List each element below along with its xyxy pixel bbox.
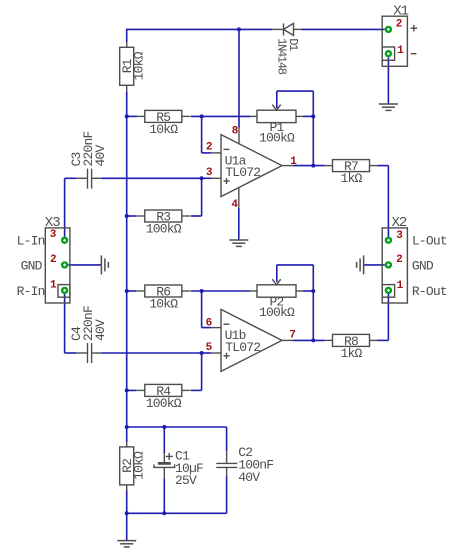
svg-text:40V: 40V xyxy=(93,319,108,341)
junction trunk / cap bus bottom xyxy=(125,511,129,515)
pin number U1a-1 xyxy=(290,156,297,168)
pin number U1b-6 xyxy=(206,318,212,330)
pin number U1b-5 xyxy=(206,342,213,354)
wire R7 to X2 pad3 xyxy=(378,166,389,237)
U1b pin 5 stub xyxy=(211,352,221,354)
svg-text:3: 3 xyxy=(206,167,213,179)
pin number U1a-8 xyxy=(232,126,239,138)
wire X1 pad1 to ground xyxy=(387,57,389,104)
ground left of X2 pin 2 xyxy=(357,255,364,274)
wire U1a output to R7 xyxy=(293,165,325,167)
connector X2 box xyxy=(382,215,407,303)
pin number U1b-7 xyxy=(289,330,295,342)
svg-text:L-In: L-In xyxy=(17,234,45,249)
ground at bottom of trunk xyxy=(117,541,136,547)
svg-text:8: 8 xyxy=(232,126,239,138)
svg-text:100kΩ: 100kΩ xyxy=(259,305,295,320)
junction R5 line / pin2 drop xyxy=(200,114,204,118)
connector X1 box xyxy=(382,3,408,66)
junction V+ bus / pin8 drop xyxy=(237,27,241,31)
label L-Out xyxy=(412,234,447,249)
label GND (X3) xyxy=(21,258,43,273)
pin number X3-1 xyxy=(50,280,57,292)
wire P1 wiper feedback loop xyxy=(277,91,314,166)
wire pin2 drop xyxy=(202,116,211,152)
label C4 text xyxy=(69,306,108,341)
U1b pin 7 stub xyxy=(282,339,293,341)
svg-text:L-Out: L-Out xyxy=(412,234,447,249)
svg-text:R-Out: R-Out xyxy=(412,284,447,299)
svg-text:1: 1 xyxy=(397,45,404,57)
label R-Out xyxy=(412,284,447,299)
svg-text:1: 1 xyxy=(397,280,404,292)
wire C1 branch xyxy=(163,427,165,513)
label C2 text xyxy=(238,445,273,485)
pin number X3-3 xyxy=(50,229,57,241)
U1a pin 1 stub xyxy=(282,165,293,167)
svg-text:TL072: TL072 xyxy=(225,340,260,355)
svg-text:1: 1 xyxy=(50,280,57,292)
wire U1b output to R8 xyxy=(293,339,325,341)
label D1 text xyxy=(274,38,300,75)
ground below X1 xyxy=(379,104,398,110)
pin number U1a-3 xyxy=(206,167,213,179)
label R-In xyxy=(17,284,45,299)
junction C1 bottom xyxy=(162,511,166,515)
capacitor C3 xyxy=(77,169,102,189)
svg-text:2: 2 xyxy=(206,142,212,154)
capacitor C2 xyxy=(216,451,237,476)
junction P2 right lead / loop xyxy=(311,289,315,293)
wire X3 pad1 riser (R-In) xyxy=(65,294,77,353)
svg-text:R-In: R-In xyxy=(17,284,45,299)
wire R3 feedback tap xyxy=(191,178,202,216)
wire X3 pad3 riser (L-In) xyxy=(65,178,77,237)
svg-text:1N4148: 1N4148 xyxy=(274,38,288,75)
svg-text:1kΩ: 1kΩ xyxy=(340,171,362,186)
capacitor C4 xyxy=(77,343,102,363)
wire pin8 supply drop xyxy=(238,29,240,127)
svg-text:TL072: TL072 xyxy=(225,165,260,180)
resistor R2 xyxy=(120,442,147,491)
svg-text:1kΩ: 1kΩ xyxy=(340,346,362,361)
potentiometer P2 xyxy=(250,279,303,320)
svg-text:3: 3 xyxy=(396,230,403,242)
junction trunk / cap bus top xyxy=(125,425,129,429)
wire bias trunk (R1/R2 divider rail) xyxy=(126,29,128,541)
resistor R5 xyxy=(137,110,190,137)
wire U1a pin4 to ground xyxy=(238,208,240,240)
ground at U1a pin 4 xyxy=(229,240,248,246)
label C3 text xyxy=(69,131,108,166)
U1a pin 4 stub xyxy=(238,187,240,208)
svg-text:10kΩ: 10kΩ xyxy=(149,122,178,137)
svg-text:10kΩ: 10kΩ xyxy=(132,451,147,480)
label GND (X2) xyxy=(412,258,434,273)
wire P2 wiper feedback loop xyxy=(277,265,314,341)
label L-In xyxy=(17,234,45,249)
pin number X2-3 xyxy=(396,230,403,242)
U1a pin 2 stub xyxy=(211,152,221,154)
junction R6 line / pin6 drop xyxy=(200,289,204,293)
wire R4 to trunk xyxy=(127,389,137,391)
svg-text:100kΩ: 100kΩ xyxy=(146,396,182,411)
pin number X3-2 xyxy=(50,254,56,266)
svg-text:100kΩ: 100kΩ xyxy=(146,221,182,236)
svg-text:GND: GND xyxy=(21,258,43,273)
wire V+ top bus xyxy=(127,28,385,30)
svg-text:4: 4 xyxy=(231,199,238,211)
wire pin6 drop xyxy=(202,291,211,328)
svg-text:2: 2 xyxy=(396,19,402,31)
wire R3 to trunk xyxy=(127,215,137,217)
connector X3 box xyxy=(45,215,70,303)
pin number U1a-2 xyxy=(206,142,212,154)
capacitor C1 (electrolytic) xyxy=(154,453,175,478)
svg-text:2: 2 xyxy=(50,254,56,266)
label X1 + - xyxy=(411,25,418,54)
wire decoupling bus top xyxy=(127,427,227,513)
wire decoupling bus bottom xyxy=(127,512,227,514)
U1b pin 6 stub xyxy=(211,327,221,329)
svg-text:5: 5 xyxy=(206,342,213,354)
svg-text:6: 6 xyxy=(206,318,212,330)
pin number X2-2 xyxy=(396,254,402,266)
svg-text:GND: GND xyxy=(412,258,434,273)
wire R4 feedback tap xyxy=(191,353,202,390)
junction C1 top xyxy=(162,425,166,429)
pin number X1-2 xyxy=(396,19,402,31)
resistor R8 xyxy=(325,334,378,361)
label C1 text xyxy=(175,449,203,489)
pin number U1a-4 xyxy=(231,199,238,211)
svg-text:X1: X1 xyxy=(393,3,408,19)
op-amp U1b xyxy=(221,309,282,371)
resistor R6 xyxy=(137,284,190,311)
op-amp U1a xyxy=(221,135,282,197)
junction C3 / pin3 / R3 xyxy=(200,176,204,180)
svg-text:100kΩ: 100kΩ xyxy=(259,131,295,146)
resistor R4 xyxy=(137,384,190,411)
svg-text:25V: 25V xyxy=(175,473,197,488)
connector X1 pads xyxy=(385,26,392,58)
pin number X1-1 xyxy=(397,45,404,57)
junction trunk/R5 xyxy=(125,114,129,118)
connector X3 pads xyxy=(61,237,68,294)
connector X2 pads xyxy=(385,237,392,294)
wire C4 to pin5 xyxy=(101,352,211,354)
svg-text:10kΩ: 10kΩ xyxy=(132,51,147,80)
potentiometer P1 xyxy=(250,105,303,146)
resistor R7 xyxy=(325,159,378,186)
wire C3 to pin3 xyxy=(101,177,211,179)
junction U1b output / loop / R8 xyxy=(311,338,315,342)
wire R8 to X2 pad1 xyxy=(378,294,389,341)
svg-text:40V: 40V xyxy=(238,470,260,485)
diode D1 1N4148 xyxy=(272,23,302,35)
ground right of X3 pin 2 xyxy=(101,255,108,274)
pin number X2-1 xyxy=(397,280,404,292)
svg-text:X2: X2 xyxy=(392,215,407,231)
wire R5 line (bias to P1) xyxy=(127,115,250,117)
junction C4 / pin5 / R4 xyxy=(200,351,204,355)
svg-text:40V: 40V xyxy=(93,144,108,166)
U1a pin 8 stub xyxy=(238,128,240,144)
resistor R1 xyxy=(120,42,147,91)
junction U1a output / loop / R7 xyxy=(311,164,315,168)
junction P1 right lead / loop xyxy=(311,114,315,118)
junction trunk/R4 xyxy=(125,388,129,392)
wire X2 pad2 to ground xyxy=(364,264,385,266)
wire P1 right lead to loop xyxy=(303,115,313,117)
svg-text:2: 2 xyxy=(396,254,402,266)
U1a pin 3 stub xyxy=(211,177,221,179)
wire P2 right lead to loop xyxy=(303,290,313,292)
svg-text:10kΩ: 10kΩ xyxy=(149,296,178,311)
resistor R3 xyxy=(137,209,190,236)
wire R6 line (bias to P2) xyxy=(127,290,250,292)
wire X3 pad2 to ground xyxy=(68,264,101,266)
svg-text:7: 7 xyxy=(289,330,295,342)
junction trunk/R6 xyxy=(125,289,129,293)
junction trunk/R3 xyxy=(125,214,129,218)
